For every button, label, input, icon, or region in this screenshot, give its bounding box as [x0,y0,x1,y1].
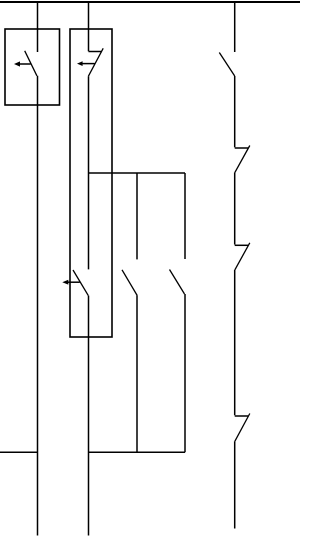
wire C lower segment [136,296,138,453]
contact K5 (NC) [235,243,250,270]
contact S3 (NO, with actuation arrow) [62,270,88,296]
contact K3 (NO) [219,53,234,77]
contact S2 (NC, with actuation arrow) [77,48,103,76]
wire A upper segment [37,2,39,52]
wire E segment 3 [234,172,236,244]
wire E segment 2 [234,76,236,147]
wire B middle segment [88,76,90,269]
top bus wire [0,1,300,3]
wire to left rail (bottom) [0,451,38,453]
wire D upper segment [184,173,186,259]
wire E segment 5 [234,441,236,528]
contact K1 (NO) [122,270,137,296]
switch box S1 [5,29,60,105]
wire D lower segment [184,294,186,452]
contact K4 (NC) [235,146,250,173]
contact K2 (NO) [170,270,185,295]
switch box S2 [70,29,112,337]
contact K6 (NC) [235,414,250,442]
wire B upper segment [88,2,90,51]
branch wire (top horizontal) [89,172,186,174]
wire A lower segment [37,76,39,536]
wire E segment 1 [234,2,236,52]
wire E segment 4 [234,270,236,416]
contact S1 (NO, with actuation arrow) [14,51,37,76]
wire C upper segment [136,173,138,259]
branch wire (bottom horizontal) [89,451,186,453]
wire B lower segment [88,296,90,536]
